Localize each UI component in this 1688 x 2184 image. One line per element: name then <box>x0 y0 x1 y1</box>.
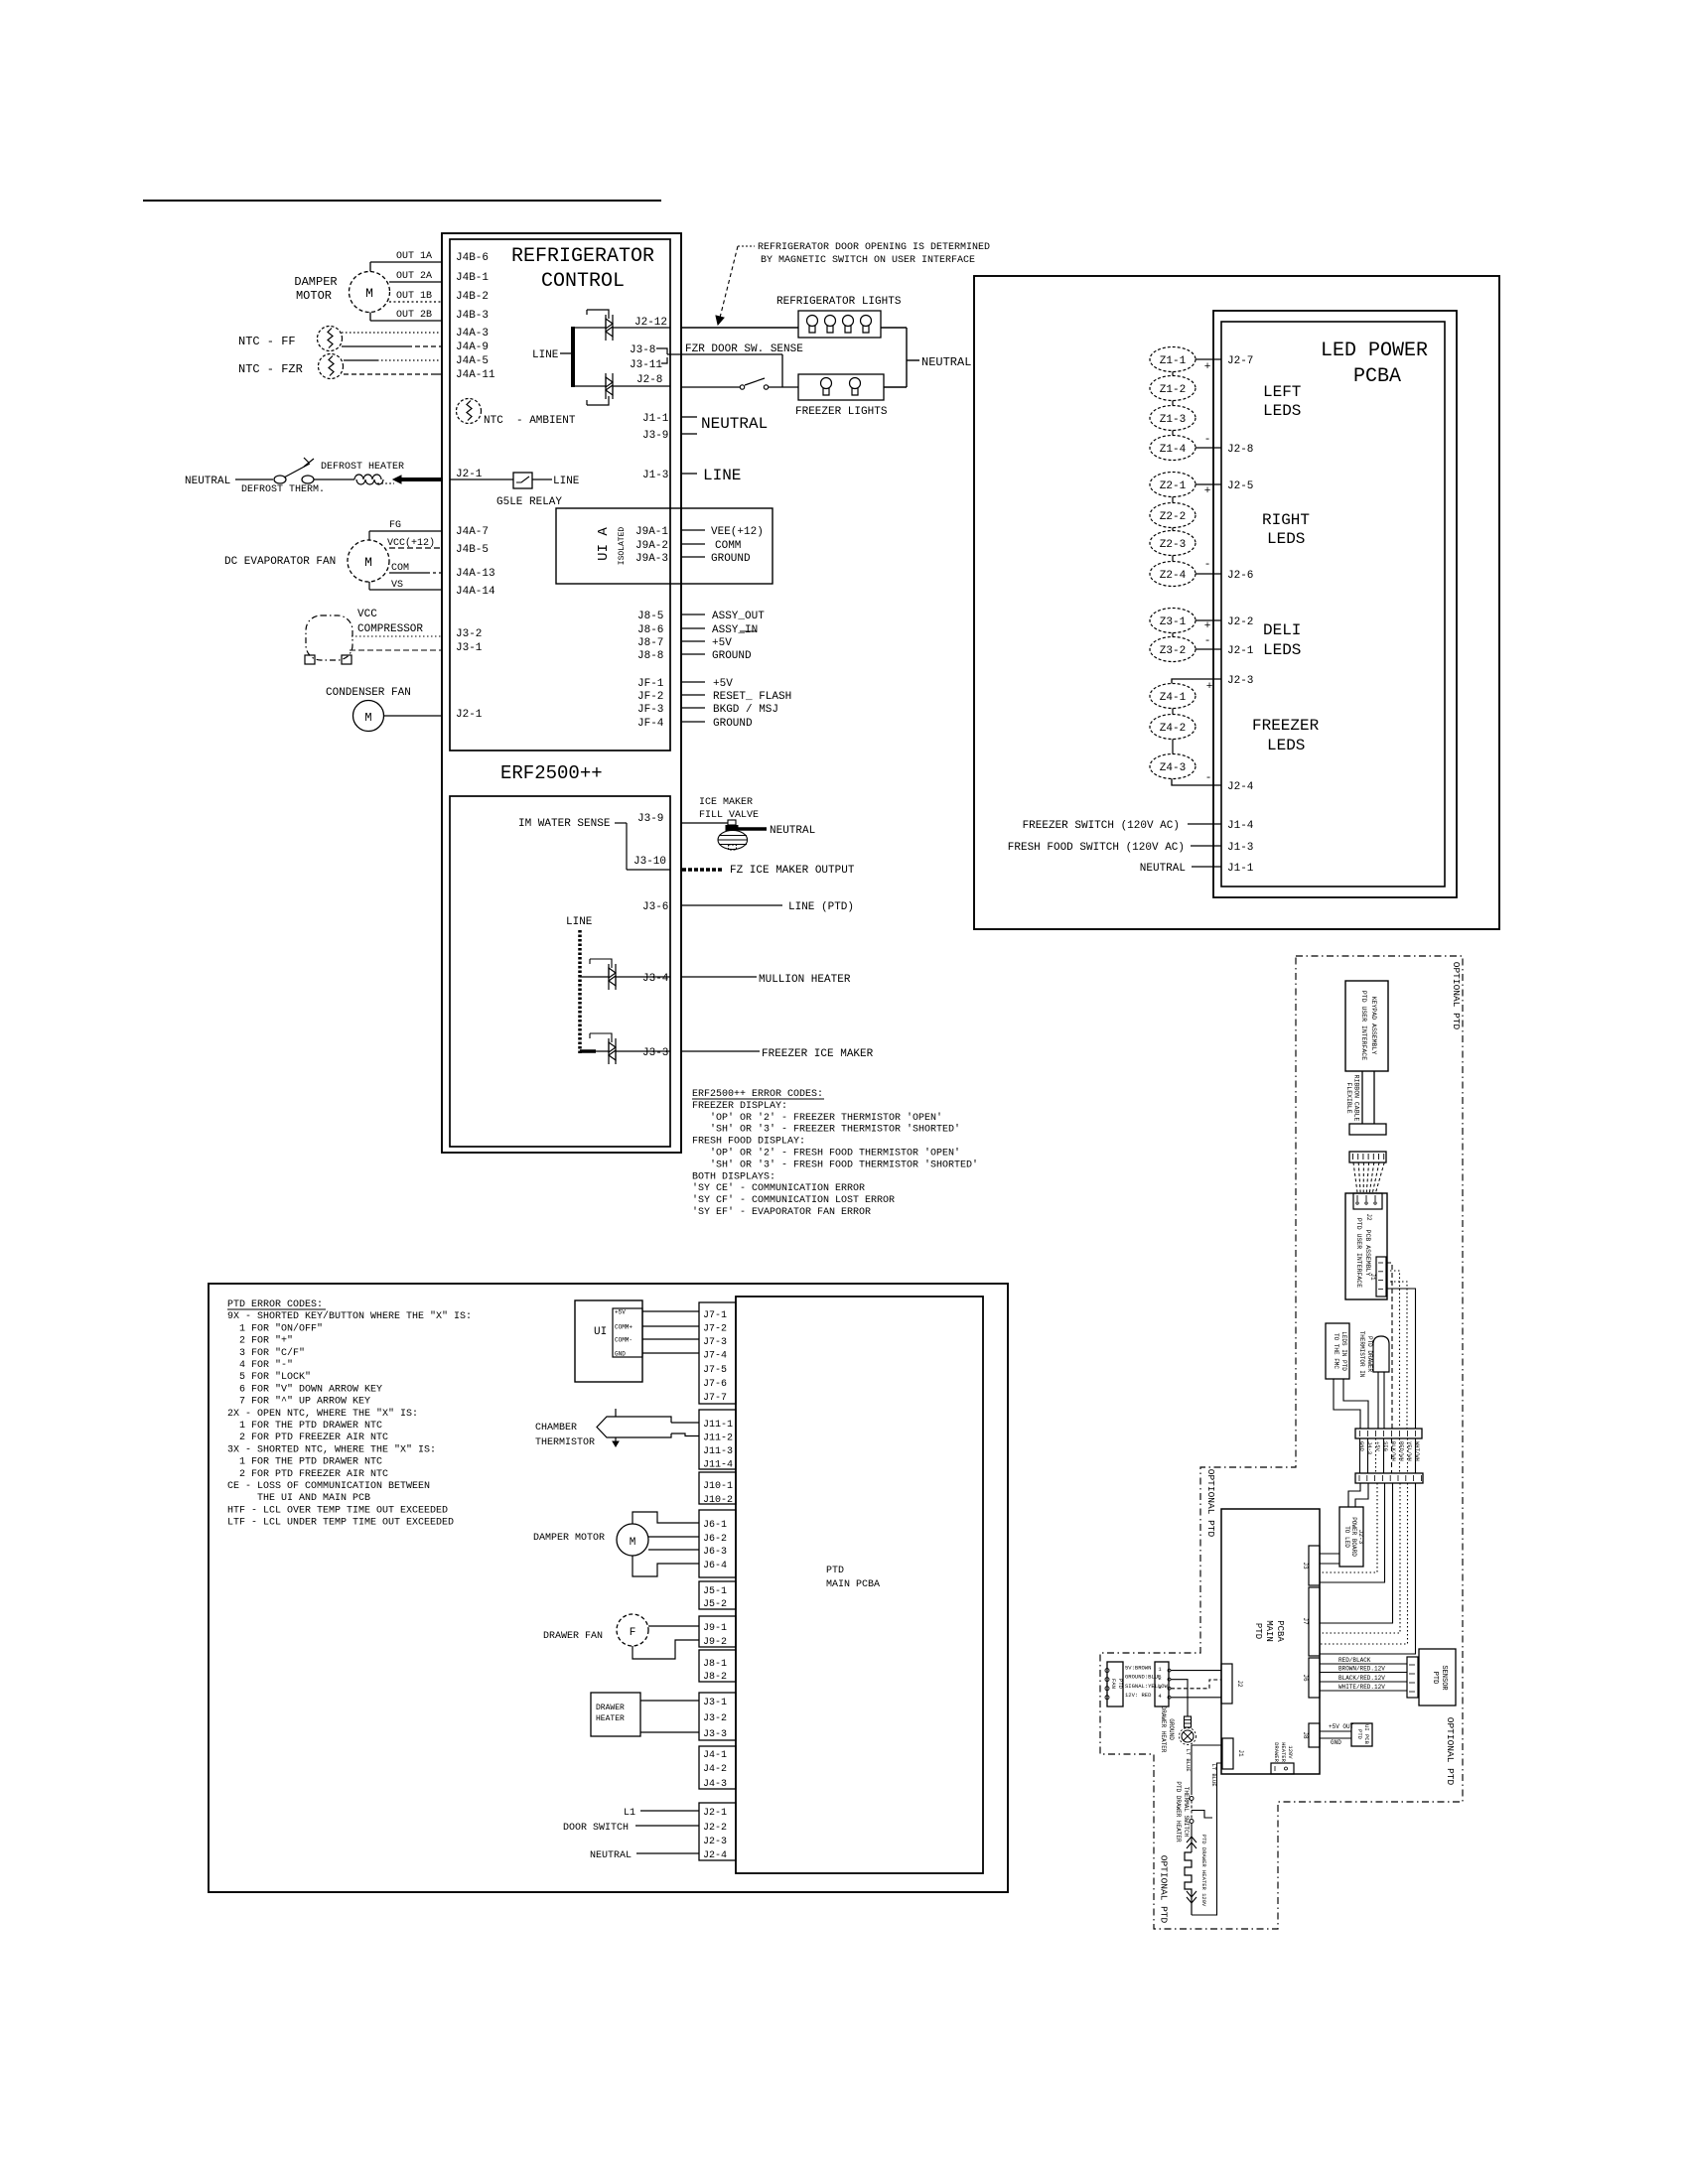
wire bar to bottom triac <box>573 385 606 387</box>
wire damper bottom bracket <box>369 313 371 322</box>
wire probe to J11-1 <box>671 1422 699 1424</box>
svg-text:OUT 1B: OUT 1B <box>396 291 432 302</box>
wire harness connector <box>1349 1152 1386 1162</box>
svg-text:M: M <box>365 286 373 301</box>
svg-text:Z2-4: Z2-4 <box>1160 570 1187 582</box>
svg-text:BKGD / MSJ: BKGD / MSJ <box>713 704 778 716</box>
wire BROWN/RED.12V <box>1320 1672 1407 1674</box>
triac J2-12 <box>606 315 613 341</box>
svg-text:PTD: PTD <box>826 1566 844 1576</box>
wire to J7 pin5 dotted <box>1320 1483 1400 1633</box>
svg-text:VCC(+12): VCC(+12) <box>387 537 435 549</box>
svg-text:J8-6: J8-6 <box>637 624 663 636</box>
thick dotted wire FZ ice maker <box>682 868 724 872</box>
NTC-FZR thermistor <box>319 354 344 379</box>
svg-text:FREEZER SWITCH (120V AC): FREEZER SWITCH (120V AC) <box>1023 820 1180 832</box>
wire J2-5 <box>1196 483 1221 485</box>
LED POWER PCBA outer box <box>1213 311 1457 897</box>
LED zone oval Z2-3 <box>1150 531 1196 556</box>
svg-text:J9-2: J9-2 <box>703 1637 727 1648</box>
UI connector sub-box <box>613 1308 642 1357</box>
LED zone oval Z2-4 <box>1150 562 1196 587</box>
svg-text:LEFT: LEFT <box>1263 383 1301 401</box>
wire FZR door sw sense <box>681 353 782 355</box>
svg-text:COMM-: COMM- <box>615 1337 633 1344</box>
refrigerator control inner box upper <box>450 239 670 751</box>
wire switch to freezer lights <box>769 386 798 388</box>
oval connector stub <box>1172 556 1174 562</box>
wire to LED power board box 2 <box>1355 1483 1368 1507</box>
svg-text:GND: GND <box>615 1351 626 1358</box>
svg-text:FAN: FAN <box>1110 1679 1117 1689</box>
svg-text:J4-2: J4-2 <box>703 1764 727 1775</box>
wire FMC 1 <box>1334 1379 1360 1429</box>
PTD UI PCB box <box>1351 1723 1372 1746</box>
svg-text:+5V OUT: +5V OUT <box>1329 1723 1354 1730</box>
svg-text:M: M <box>364 555 372 570</box>
wire bar to mullion triac <box>580 976 609 978</box>
svg-text:VEE(+12): VEE(+12) <box>711 526 764 538</box>
oval connector stub <box>1172 740 1174 754</box>
LED zone oval Z4-1 <box>1150 684 1196 709</box>
svg-text:J10-1: J10-1 <box>703 1481 733 1492</box>
ASSY_IN overline mark <box>740 630 757 632</box>
svg-text:PTD USER INTERFACE: PTD USER INTERFACE <box>1355 1218 1362 1288</box>
PTD drawer heater zigzag <box>1185 1852 1192 1915</box>
svg-text:MOTOR: MOTOR <box>296 289 332 303</box>
svg-text:PTD ERROR CODES:: PTD ERROR CODES: <box>227 1299 323 1310</box>
LED power outer enclosure box <box>974 276 1499 929</box>
bulb 1 refrigerator <box>807 316 818 334</box>
wire J2-8 <box>1196 447 1221 449</box>
connector block J8 <box>699 1650 736 1682</box>
wire J2-12 to refrigerator lights <box>681 327 798 329</box>
wire fan signal dashed <box>1171 1680 1221 1689</box>
wire switch to heater <box>1191 1824 1193 1853</box>
svg-text:J8-7: J8-7 <box>637 637 663 649</box>
svg-text:DAMPER: DAMPER <box>294 275 337 289</box>
svg-text:J2-8: J2-8 <box>1227 444 1253 456</box>
svg-text:J3-10: J3-10 <box>633 856 666 868</box>
thick line bus bar <box>571 327 575 387</box>
underline PTD ERROR CODES <box>227 1308 326 1310</box>
LED zone oval Z4-2 <box>1150 715 1196 740</box>
svg-text:LEDS: LEDS <box>1263 402 1301 420</box>
wire J9A-1 stub <box>681 529 705 531</box>
wire J3-6 to LINE (PTD) <box>681 904 782 906</box>
svg-text:UI PCB: UI PCB <box>1363 1724 1370 1745</box>
svg-text:-: - <box>1205 772 1212 784</box>
wire J2-7 <box>1196 358 1221 360</box>
svg-text:DAMPER MOTOR: DAMPER MOTOR <box>533 1533 605 1544</box>
svg-text:'SY EF' - EVAPORATOR FAN ERROR: 'SY EF' - EVAPORATOR FAN ERROR <box>692 1206 871 1218</box>
connector block J2 <box>699 1803 736 1860</box>
svg-text:Z2-2: Z2-2 <box>1160 511 1186 523</box>
connector block J4 <box>699 1746 736 1789</box>
wire J2-2 <box>1196 619 1221 621</box>
svg-text:PTD USER INTERFACE: PTD USER INTERFACE <box>1360 991 1367 1060</box>
svg-text:5 FOR "LOCK": 5 FOR "LOCK" <box>227 1371 311 1383</box>
wire fan to J9-1 <box>648 1625 699 1627</box>
wire J1-1 stub <box>681 416 697 418</box>
oval connector stub <box>1172 709 1174 715</box>
wire J6-3 to motor <box>648 1549 699 1551</box>
wire J8-6 stub <box>681 627 705 629</box>
svg-text:J6-1: J6-1 <box>703 1520 727 1531</box>
wire J2-6 <box>1196 573 1221 575</box>
svg-text:J8-2: J8-2 <box>703 1672 727 1683</box>
wire heater to J3-3 <box>640 1731 699 1733</box>
svg-text:J2-2: J2-2 <box>1227 616 1253 628</box>
wire OUT 2B <box>370 320 442 322</box>
TO LED POWER BOARD J2-3 box <box>1339 1507 1363 1567</box>
svg-text:J7-4: J7-4 <box>703 1351 727 1362</box>
condenser fan motor <box>353 701 384 732</box>
svg-text:DOOR SWITCH: DOOR SWITCH <box>563 1823 629 1834</box>
svg-text:'SY CF' - COMMUNICATION LOST E: 'SY CF' - COMMUNICATION LOST ERROR <box>692 1194 895 1206</box>
compressor body <box>306 615 352 660</box>
bulb 2 refrigerator <box>825 316 836 334</box>
svg-text:Z3-1: Z3-1 <box>1160 616 1187 628</box>
svg-text:MAIN PCBA: MAIN PCBA <box>826 1579 880 1590</box>
svg-text:LEDS: LEDS <box>1267 737 1305 754</box>
wire to J7 pin6 dotted <box>1320 1483 1408 1644</box>
wire J6-1 to motor <box>633 1512 699 1524</box>
wire triac to J3-3 <box>616 1050 670 1052</box>
wire OUT 1A <box>370 261 442 263</box>
svg-text:J10-2: J10-2 <box>703 1495 733 1506</box>
svg-text:'OP' OR '2' - FRESH FOOD THERM: 'OP' OR '2' - FRESH FOOD THERMISTOR 'OPE… <box>692 1148 960 1160</box>
svg-text:+: + <box>1204 620 1211 632</box>
svg-text:NEUTRAL: NEUTRAL <box>185 476 230 487</box>
svg-text:NTC - AMBIENT: NTC - AMBIENT <box>484 415 576 427</box>
svg-text:+: + <box>1204 361 1211 373</box>
svg-text:'SH' OR '3' - FREEZER THERMIST: 'SH' OR '3' - FREEZER THERMISTOR 'SHORTE… <box>692 1124 960 1136</box>
wire J1-3 <box>1191 845 1221 847</box>
svg-text:LT BLUE: LT BLUE <box>1185 1748 1192 1772</box>
wire J1-3 stub <box>681 473 697 475</box>
wire UI GND to J7 <box>642 1352 699 1354</box>
svg-text:2 FOR PTD FREEZER AIR NTC: 2 FOR PTD FREEZER AIR NTC <box>227 1433 388 1443</box>
svg-text:RIBBON CABLE: RIBBON CABLE <box>1353 1075 1360 1122</box>
svg-text:1 FOR "ON/OFF": 1 FOR "ON/OFF" <box>227 1322 323 1334</box>
wire lights to right <box>881 327 907 329</box>
wire IM bracket bottom <box>627 869 670 871</box>
wire J8-8 stub <box>681 653 705 655</box>
connector block J10 <box>699 1472 736 1504</box>
svg-text:LINE: LINE <box>532 349 559 361</box>
svg-text:ERF2500++: ERF2500++ <box>500 762 603 784</box>
svg-text:J3-9: J3-9 <box>642 430 668 442</box>
svg-text:+: + <box>1206 681 1213 693</box>
svg-text:-: - <box>1204 434 1211 446</box>
UI box <box>575 1300 642 1382</box>
svg-text:J1: J1 <box>1237 1749 1244 1757</box>
svg-text:J2-3: J2-3 <box>1227 675 1253 687</box>
svg-text:PTD DRAWER HEATER 120V: PTD DRAWER HEATER 120V <box>1200 1835 1207 1907</box>
wire neutral to J2-4 <box>636 1852 699 1854</box>
refrigerator control outer box <box>442 233 681 1153</box>
oval connector stub <box>1172 372 1174 376</box>
oval connector stub <box>1172 497 1174 503</box>
wires between connector strips <box>1359 1438 1361 1473</box>
svg-text:REFRIGERATOR LIGHTS: REFRIGERATOR LIGHTS <box>776 296 902 308</box>
wire UI +5V to J7 <box>642 1310 699 1312</box>
LED POWER PCBA inner box <box>1221 322 1445 887</box>
triac J2-8 <box>606 373 613 399</box>
svg-text:LEDS: LEDS <box>1267 530 1305 548</box>
svg-text:CHAMBER: CHAMBER <box>535 1423 577 1433</box>
svg-text:5V:BROWN: 5V:BROWN <box>1125 1665 1151 1672</box>
svg-text:J4A-13: J4A-13 <box>456 568 495 580</box>
svg-text:COMM+: COMM+ <box>615 1324 633 1331</box>
oval connector stub <box>1172 633 1174 637</box>
svg-text:JF-2: JF-2 <box>637 691 663 703</box>
svg-text:NEUTRAL: NEUTRAL <box>921 355 971 369</box>
svg-text:DELI: DELI <box>1263 621 1301 639</box>
PTD USER INTERFACE PCB ASSEMBLY box <box>1345 1193 1387 1299</box>
svg-text:DC EVAPORATOR FAN: DC EVAPORATOR FAN <box>224 556 336 568</box>
svg-text:M: M <box>364 711 371 725</box>
wire FG <box>369 530 442 532</box>
wire J8-7 stub <box>681 640 705 642</box>
vertical wire right of lights <box>906 328 908 387</box>
svg-text:J8-8: J8-8 <box>637 650 663 662</box>
svg-text:COM: COM <box>391 563 409 574</box>
PCB top connector J2 <box>1353 1193 1382 1209</box>
svg-text:J2-12: J2-12 <box>634 317 667 329</box>
svg-text:J2: J2 <box>1365 1213 1372 1221</box>
wire J3-9 stub <box>681 433 697 435</box>
wire +5V OUT <box>1320 1730 1351 1732</box>
svg-text:J4B-1: J4B-1 <box>456 272 489 284</box>
svg-text:PTD: PTD <box>1356 1729 1363 1740</box>
svg-text:J4B-2: J4B-2 <box>456 291 489 303</box>
svg-text:J2-1: J2-1 <box>456 469 483 480</box>
connector block J5 <box>699 1581 736 1609</box>
NTC-AMBIENT thermistor <box>457 399 482 424</box>
triac J3-4 (mullion) <box>609 964 616 990</box>
svg-text:J8-5: J8-5 <box>637 611 663 622</box>
svg-text:J9A-3: J9A-3 <box>635 553 668 565</box>
underline ERF2500 error codes <box>692 1098 824 1100</box>
freezer door switch contact <box>740 385 744 389</box>
wire NTC-FF bottom solid <box>342 345 407 347</box>
svg-text:J8: J8 <box>1302 1731 1309 1739</box>
svg-text:J11-2: J11-2 <box>703 1433 733 1444</box>
drawer heater ground screw <box>1185 1716 1192 1727</box>
svg-text:J2-4: J2-4 <box>1227 781 1254 793</box>
oval connector stub <box>1172 401 1174 406</box>
svg-text:GROUND: GROUND <box>712 650 752 662</box>
svg-text:J5-2: J5-2 <box>703 1599 727 1610</box>
svg-text:BROWN/RED.12V: BROWN/RED.12V <box>1338 1666 1385 1673</box>
svg-text:PTD: PTD <box>1253 1623 1263 1639</box>
svg-text:12V: RED: 12V: RED <box>1125 1692 1152 1699</box>
heater chevron bottom <box>1187 1891 1196 1903</box>
svg-text:Z1-3: Z1-3 <box>1160 414 1186 426</box>
wire VCC dashed <box>389 547 442 549</box>
svg-text:J3-6: J3-6 <box>642 901 668 913</box>
LED zone oval Z1-4 <box>1150 436 1196 461</box>
wire J1-4 <box>1188 823 1221 825</box>
svg-text:UI A: UI A <box>596 527 612 561</box>
svg-text:J6: J6 <box>1302 1674 1309 1682</box>
svg-text:J1-3: J1-3 <box>642 470 668 481</box>
lower bar thick elbow <box>580 1049 596 1053</box>
svg-text:DRAWER FAN: DRAWER FAN <box>543 1631 603 1642</box>
svg-text:OUT 1A: OUT 1A <box>396 251 432 262</box>
svg-text:FLEXIBLE: FLEXIBLE <box>1345 1082 1352 1113</box>
svg-text:RED/BLACK: RED/BLACK <box>1338 1657 1371 1664</box>
wire probe to J11-2 <box>671 1433 699 1436</box>
svg-text:KEYPAD ASSEMBLY: KEYPAD ASSEMBLY <box>1370 997 1377 1055</box>
svg-text:MAIN: MAIN <box>1264 1620 1274 1642</box>
wire heater to J3-1 <box>640 1700 699 1702</box>
PCB right connector J1 <box>1376 1257 1386 1297</box>
svg-text:9X - SHORTED KEY/BUTTON WHERE: 9X - SHORTED KEY/BUTTON WHERE THE "X" IS… <box>227 1310 472 1322</box>
svg-text:TO THE FMC: TO THE FMC <box>1333 1333 1339 1369</box>
svg-text:J4A-5: J4A-5 <box>456 355 489 367</box>
mullion triac hook <box>590 959 612 968</box>
compressor foot right <box>342 655 352 664</box>
wire to NEUTRAL label <box>907 359 919 361</box>
wire JF-1 stub <box>681 681 705 683</box>
svg-text:JF-1: JF-1 <box>637 678 664 690</box>
TO THE FMC LEDS IN PTD box <box>1326 1323 1349 1379</box>
wire IM vertical <box>626 823 628 870</box>
svg-text:FILL VALVE: FILL VALVE <box>699 810 759 821</box>
LED zone oval Z1-1 <box>1150 347 1196 372</box>
svg-text:J9-1: J9-1 <box>703 1623 727 1634</box>
svg-text:POWER BOARD: POWER BOARD <box>1350 1517 1357 1557</box>
svg-text:LINE: LINE <box>553 476 580 487</box>
compressor foot left <box>305 655 315 664</box>
svg-text:PCB ASSEMBLY: PCB ASSEMBLY <box>1364 1230 1371 1277</box>
svg-text:NEUTRAL: NEUTRAL <box>770 825 815 837</box>
freezer lights box <box>798 374 884 400</box>
wire J1 pin1 down to switch <box>1192 1745 1221 1795</box>
wire J6-2 to motor <box>648 1536 699 1538</box>
connector block J9 <box>699 1616 736 1647</box>
svg-text:2X - OPEN NTC, WHERE THE "X" I: 2X - OPEN NTC, WHERE THE "X" IS: <box>227 1408 418 1420</box>
connector block J7 <box>699 1302 736 1404</box>
svg-text:J2-1: J2-1 <box>703 1808 727 1819</box>
svg-text:BY MAGNETIC SWITCH ON USER INT: BY MAGNETIC SWITCH ON USER INTERFACE <box>761 255 975 266</box>
svg-text:4 FOR "-": 4 FOR "-" <box>227 1359 293 1371</box>
wire VS <box>369 589 442 591</box>
wire relay to LINE <box>532 478 552 480</box>
svg-text:J4A-3: J4A-3 <box>456 328 489 340</box>
svg-text:GROUND:BLUE: GROUND:BLUE <box>1125 1674 1162 1681</box>
svg-text:OPTIONAL PTD: OPTIONAL PTD <box>1445 1717 1456 1786</box>
svg-text:GROUND: GROUND <box>1168 1718 1175 1740</box>
svg-text:1 FOR THE PTD DRAWER NTC: 1 FOR THE PTD DRAWER NTC <box>227 1457 382 1468</box>
wire bar to top triac <box>573 327 606 329</box>
refrigerator control inner box lower (ERF2500) <box>450 796 670 1147</box>
probe bottom tick <box>615 1437 617 1443</box>
ice maker fill valve <box>728 820 736 825</box>
svg-text:J4A-11: J4A-11 <box>456 369 495 381</box>
svg-text:7 FOR "^" UP ARROW KEY: 7 FOR "^" UP ARROW KEY <box>227 1396 370 1408</box>
block J2 (rotated pcba left) <box>1221 1664 1232 1704</box>
svg-text:FZ ICE MAKER OUTPUT: FZ ICE MAKER OUTPUT <box>730 865 855 877</box>
bulb 1 freezer <box>821 378 832 396</box>
wire neutral to defrost therm <box>235 478 273 480</box>
PTD damper motor <box>617 1524 648 1556</box>
LED zone oval Z1-3 <box>1150 406 1196 431</box>
wire fan 5V <box>1171 1670 1221 1672</box>
flexible ribbon cable <box>1361 1071 1363 1124</box>
svg-text:Z2-3: Z2-3 <box>1160 539 1186 551</box>
svg-text:6 FOR "V" DOWN ARROW KEY: 6 FOR "V" DOWN ARROW KEY <box>227 1383 382 1395</box>
svg-text:J7-6: J7-6 <box>703 1379 727 1390</box>
svg-text:J1-3: J1-3 <box>1227 842 1253 854</box>
svg-text:REFRIGERATOR DOOR OPENING IS D: REFRIGERATOR DOOR OPENING IS DETERMINED <box>758 242 990 253</box>
Z4 bottom bracket wire J2-4 <box>1172 779 1221 786</box>
svg-text:ERF2500++ ERROR CODES:: ERF2500++ ERROR CODES: <box>692 1089 823 1100</box>
svg-text:J4B-6: J4B-6 <box>456 252 489 264</box>
thick dotted bus bar lower <box>578 930 582 1053</box>
svg-text:THE UI AND MAIN PCB: THE UI AND MAIN PCB <box>227 1493 370 1504</box>
wire J9A-2 stub <box>681 543 705 545</box>
drawer heater output connector <box>1271 1763 1294 1774</box>
wire OUT 2A <box>389 281 442 283</box>
svg-text:LINE: LINE <box>566 916 593 928</box>
wire UI COMM- to J7 <box>642 1338 699 1340</box>
svg-text:PCBA: PCBA <box>1275 1620 1285 1642</box>
svg-text:J3-11: J3-11 <box>630 359 662 371</box>
wire J3-4 to MULLION HEATER <box>681 976 757 978</box>
wire to LED power board box 1 <box>1348 1483 1360 1507</box>
svg-text:J7-2: J7-2 <box>703 1324 727 1335</box>
bulb 4 refrigerator <box>861 316 872 334</box>
wire WHITE/RED.12V <box>1320 1690 1407 1692</box>
block J6 (rotated pcba) <box>1309 1658 1320 1698</box>
svg-text:PTD: PTD <box>1431 1672 1439 1685</box>
wire triac to J2-12 <box>613 327 670 329</box>
chamber thermistor probe <box>597 1417 671 1437</box>
DRAWER HEATER box <box>591 1693 640 1736</box>
svg-text:J11-3: J11-3 <box>703 1446 733 1457</box>
svg-text:-: - <box>1204 635 1211 647</box>
svg-text:OPTIONAL PTD: OPTIONAL PTD <box>1205 1469 1216 1538</box>
svg-text:J7-3: J7-3 <box>703 1337 727 1348</box>
wire to J7 pin7 <box>1320 1483 1416 1654</box>
svg-text:J3-2: J3-2 <box>456 628 482 640</box>
svg-text:OPTIONAL PTD: OPTIONAL PTD <box>1451 962 1462 1030</box>
svg-text:FREEZER DISPLAY:: FREEZER DISPLAY: <box>692 1101 787 1112</box>
svg-text:J2: J2 <box>1236 1680 1243 1688</box>
svg-text:F: F <box>630 1627 636 1639</box>
svg-text:FREEZER LIGHTS: FREEZER LIGHTS <box>795 406 888 418</box>
svg-text:J1-1: J1-1 <box>1227 863 1254 875</box>
svg-text:DRAWER HEATER: DRAWER HEATER <box>1160 1706 1167 1753</box>
block J8 (rotated pcba) <box>1309 1723 1320 1747</box>
wire to J3 pin4 <box>1320 1483 1385 1582</box>
probe tick arrow <box>613 1441 619 1446</box>
svg-text:J4A-7: J4A-7 <box>456 526 489 538</box>
svg-text:J6-2: J6-2 <box>703 1534 727 1545</box>
svg-text:M: M <box>630 1537 636 1549</box>
wire heater squiggle <box>377 482 394 484</box>
wire J1-1 <box>1192 866 1221 868</box>
inline connector strip 2 <box>1355 1473 1423 1483</box>
connector block J11 <box>699 1410 736 1469</box>
wire FMC 2 <box>1343 1379 1368 1429</box>
svg-text:LINE (PTD): LINE (PTD) <box>788 901 854 913</box>
svg-text:PTD DRAWER: PTD DRAWER <box>1366 1336 1373 1372</box>
